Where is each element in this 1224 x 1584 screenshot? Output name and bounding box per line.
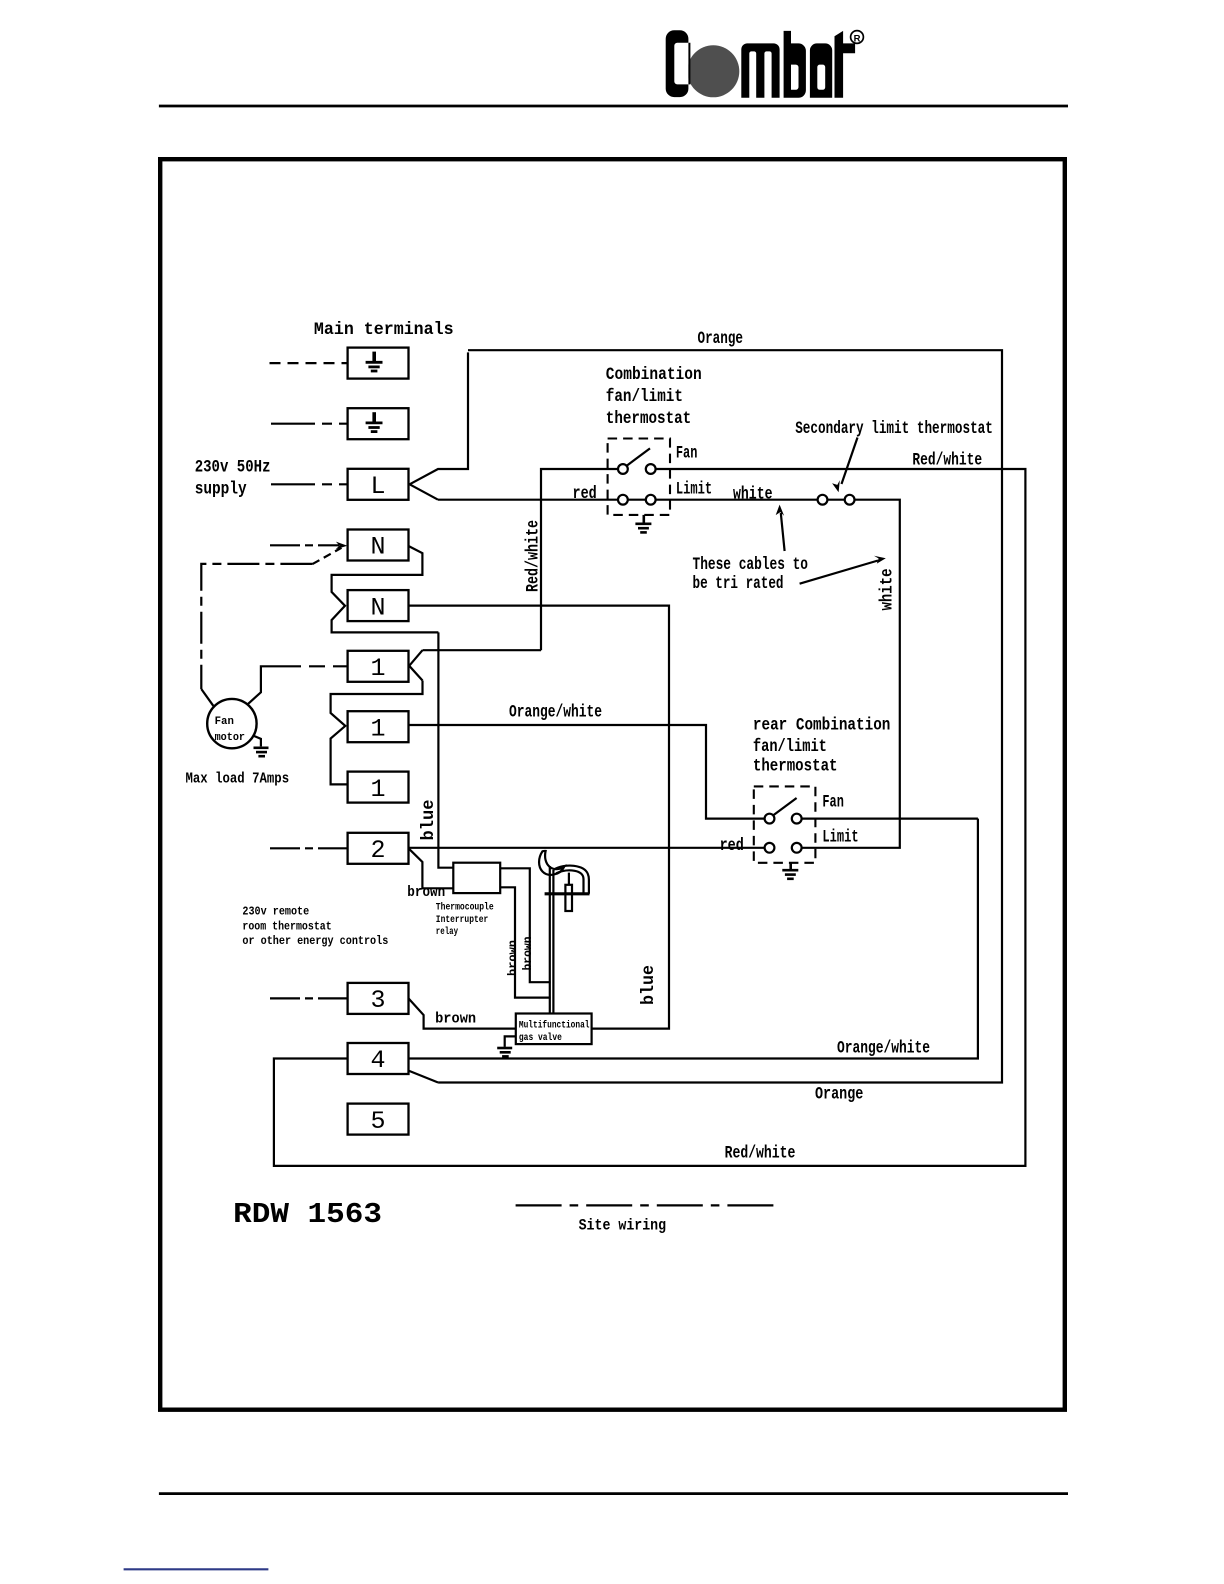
svg-text:fan/limit: fan/limit <box>606 387 683 407</box>
arrow from secondary limit label to contacts <box>842 438 858 485</box>
terminal box 1b <box>348 711 409 742</box>
dashed lead to E1 <box>270 362 348 364</box>
blue wire N-link down to relay <box>438 632 453 867</box>
rear thermostat limit switch contacts <box>765 843 775 853</box>
fan motor earth wire <box>253 735 261 746</box>
pilot burner body <box>553 866 589 894</box>
svg-text:Secondary limit thermostat: Secondary limit thermostat <box>795 419 993 439</box>
svg-text:Limit: Limit <box>822 828 858 848</box>
fan motor circle <box>207 699 256 748</box>
rear thermostat fan switch contacts <box>765 814 775 824</box>
svg-text:R: R <box>854 33 861 44</box>
svg-text:4: 4 <box>370 1046 385 1075</box>
svg-text:Red/white: Red/white <box>912 451 982 471</box>
svg-text:brown: brown <box>506 940 520 976</box>
terminal box earth E2 <box>348 408 409 439</box>
combination thermostat limit switch contacts <box>618 495 628 505</box>
svg-text:N: N <box>370 533 385 562</box>
terminal box 4 <box>348 1043 409 1074</box>
svg-text:thermostat: thermostat <box>753 757 838 777</box>
brown wire relay lower output <box>500 887 550 997</box>
svg-text:red: red <box>720 836 744 856</box>
arrow from tri-rated note to white wire <box>781 513 785 551</box>
thermocouple tip <box>565 885 572 911</box>
combination thermostat fan switch contacts <box>618 464 628 474</box>
svg-text:Limit: Limit <box>676 480 712 500</box>
brown wire relay upper output <box>500 868 550 982</box>
dashed diagonal into N1 <box>312 548 341 564</box>
rear thermostat fan switch lever <box>773 798 796 815</box>
svg-text:Fan: Fan <box>215 716 234 728</box>
svg-text:230v 50Hz: 230v 50Hz <box>195 458 271 478</box>
Orange wire loop top to terminal 4 diagonal <box>438 350 1002 1082</box>
top horizontal rule <box>159 105 1068 108</box>
svg-text:blue: blue <box>419 800 439 841</box>
Combat logo letter C <box>673 43 689 85</box>
terminal box N2 <box>348 590 409 621</box>
fan motor wire to terminal 1a <box>248 666 285 704</box>
THERMO_GROUP <box>608 438 886 879</box>
svg-text:fan/limit: fan/limit <box>753 737 827 757</box>
svg-text:motor: motor <box>215 732 245 744</box>
combination fan/limit thermostat dashed box <box>608 439 670 515</box>
svg-text:L: L <box>370 472 385 501</box>
terminal box 1c <box>348 772 409 803</box>
Red/white wire fan circuit long loop to terminal 4 <box>274 469 1026 1166</box>
svg-text:3: 3 <box>370 986 385 1015</box>
svg-text:Multifunctional: Multifunctional <box>519 1020 590 1032</box>
svg-text:gas valve: gas valve <box>519 1032 562 1044</box>
svg-text:5: 5 <box>370 1107 385 1136</box>
svg-text:room thermostat: room thermostat <box>242 919 331 933</box>
L output fork upper branch to Orange wire <box>410 352 468 484</box>
brown wire terminal 2 to rear limit switch <box>409 847 770 849</box>
svg-text:Orange/white: Orange/white <box>837 1038 930 1058</box>
svg-text:Orange: Orange <box>698 329 744 349</box>
svg-text:1: 1 <box>370 654 385 683</box>
svg-text:Thermocouple: Thermocouple <box>436 902 494 914</box>
svg-text:1: 1 <box>370 714 385 743</box>
diagram border frame <box>160 159 1065 1410</box>
dash-dot lead to E2 <box>271 423 348 425</box>
bottom horizontal rule <box>159 1492 1068 1495</box>
fan motor ground symbol <box>254 748 269 756</box>
pilot flame shape <box>539 851 564 875</box>
svg-text:rear Combination: rear Combination <box>753 716 891 736</box>
link loop 1a to 1b <box>331 681 423 785</box>
Red/white horizontal into terminal 1a chevron <box>423 649 542 651</box>
svg-text:white: white <box>878 569 898 611</box>
TEXTS_GROUP <box>186 320 993 1235</box>
svg-text:Fan: Fan <box>822 793 844 813</box>
pilot bracket crossbar <box>545 892 590 895</box>
svg-text:Orange: Orange <box>815 1085 863 1105</box>
svg-text:Red/white: Red/white <box>725 1143 796 1163</box>
svg-text:supply: supply <box>195 480 247 500</box>
rear combination fan/limit thermostat dashed box <box>754 786 816 862</box>
svg-text:These cables to: These cables to <box>693 555 809 575</box>
ground below rear thermostat <box>782 863 798 879</box>
Orange/white wire terminal 4 to rear fan switch <box>409 819 978 1059</box>
gas valve ground symbol <box>497 1048 512 1056</box>
svg-text:Fan: Fan <box>676 444 698 464</box>
svg-text:be tri rated: be tri rated <box>693 574 784 594</box>
svg-text:blue: blue <box>639 965 659 1005</box>
LOGO_GROUP <box>666 30 864 98</box>
link diagonal from terminal 2 to relay <box>409 848 454 888</box>
earth symbol in E2 <box>366 412 383 431</box>
FRAME_GROUP <box>160 159 1065 1410</box>
Combat logo letters mbat <box>741 43 779 97</box>
dash-dot lead to 3 <box>270 997 348 999</box>
earth symbol in E1 <box>366 352 383 371</box>
secondary limit thermostat contacts <box>818 495 828 505</box>
gas valve earth wire <box>505 1036 516 1047</box>
dash-dot lead to N1 with arrow <box>270 544 339 546</box>
chevron into terminal 1a <box>409 650 422 680</box>
blue wire N2 to gas valve <box>409 606 670 1029</box>
dash-dot lead to 2 <box>270 847 348 849</box>
terminal box N1 <box>348 530 409 561</box>
svg-text:brown: brown <box>407 884 445 901</box>
thermocouple stem double line to gas valve <box>550 866 554 1014</box>
svg-text:Interrupter: Interrupter <box>436 915 489 926</box>
svg-text:or other energy controls: or other energy controls <box>242 934 388 948</box>
terminal box 1a <box>348 651 409 682</box>
Combat logo registered mark <box>851 31 864 44</box>
svg-text:2: 2 <box>370 836 385 865</box>
DEVICES_GROUP <box>201 548 774 1206</box>
terminal box earth E1 <box>348 348 409 379</box>
terminal box 3 <box>348 983 409 1014</box>
L output fork lower branch red wire start <box>410 484 438 499</box>
svg-text:brown: brown <box>521 937 535 971</box>
svg-text:230v remote: 230v remote <box>242 905 309 919</box>
WIRES_GROUP <box>274 350 1026 1166</box>
svg-text:RDW 1563: RDW 1563 <box>233 1198 382 1231</box>
combination thermostat fan switch lever <box>627 448 650 465</box>
svg-text:Red/white: Red/white <box>524 520 544 592</box>
terminal box 5 <box>348 1104 409 1135</box>
fan motor dash-dot supply loop <box>201 564 312 689</box>
svg-text:relay: relay <box>436 926 458 938</box>
arrow from tri-rated note to white vertical wire <box>800 561 878 584</box>
svg-text:red: red <box>573 484 597 504</box>
svg-text:N: N <box>370 593 385 622</box>
svg-text:thermostat: thermostat <box>606 409 691 429</box>
terminal box L <box>348 469 409 500</box>
link diagonal from terminal 3 to gas valve <box>409 998 516 1028</box>
LINKS_GROUP <box>331 352 516 1082</box>
ground below combination thermostat <box>635 515 651 533</box>
Orange/white wire terminal 1b to rear fan switch <box>409 725 978 819</box>
red wire L to combination limit then white to rear limit <box>438 500 900 848</box>
link loop N1 to N2 <box>332 546 439 632</box>
thermocouple interrupter relay box <box>453 863 500 893</box>
dash-dot lead to L <box>271 483 348 485</box>
svg-text:Orange/white: Orange/white <box>509 703 602 723</box>
fan motor wire into circle <box>201 689 213 706</box>
svg-text:Max load 7Amps: Max load 7Amps <box>186 771 290 788</box>
svg-text:Site wiring: Site wiring <box>579 1216 667 1234</box>
TERMINALS_GROUP <box>270 348 409 1136</box>
Combat logo gray circle o <box>687 45 739 97</box>
terminal box 2 <box>348 833 409 864</box>
thermocouple tip connector <box>568 873 570 885</box>
RULES_GROUP <box>124 106 1068 1569</box>
svg-text:brown: brown <box>435 1011 476 1028</box>
svg-text:Main terminals: Main terminals <box>314 320 454 340</box>
svg-text:Combination: Combination <box>606 365 702 385</box>
site wiring legend dash-dot line <box>516 1204 774 1206</box>
multifunctional gas valve box <box>516 1014 592 1045</box>
bottom-left blue rule <box>124 1568 269 1570</box>
svg-text:white: white <box>733 484 773 504</box>
svg-text:1: 1 <box>370 775 385 804</box>
link diagonal from terminal 4 to Orange bottom wire <box>409 1071 439 1083</box>
